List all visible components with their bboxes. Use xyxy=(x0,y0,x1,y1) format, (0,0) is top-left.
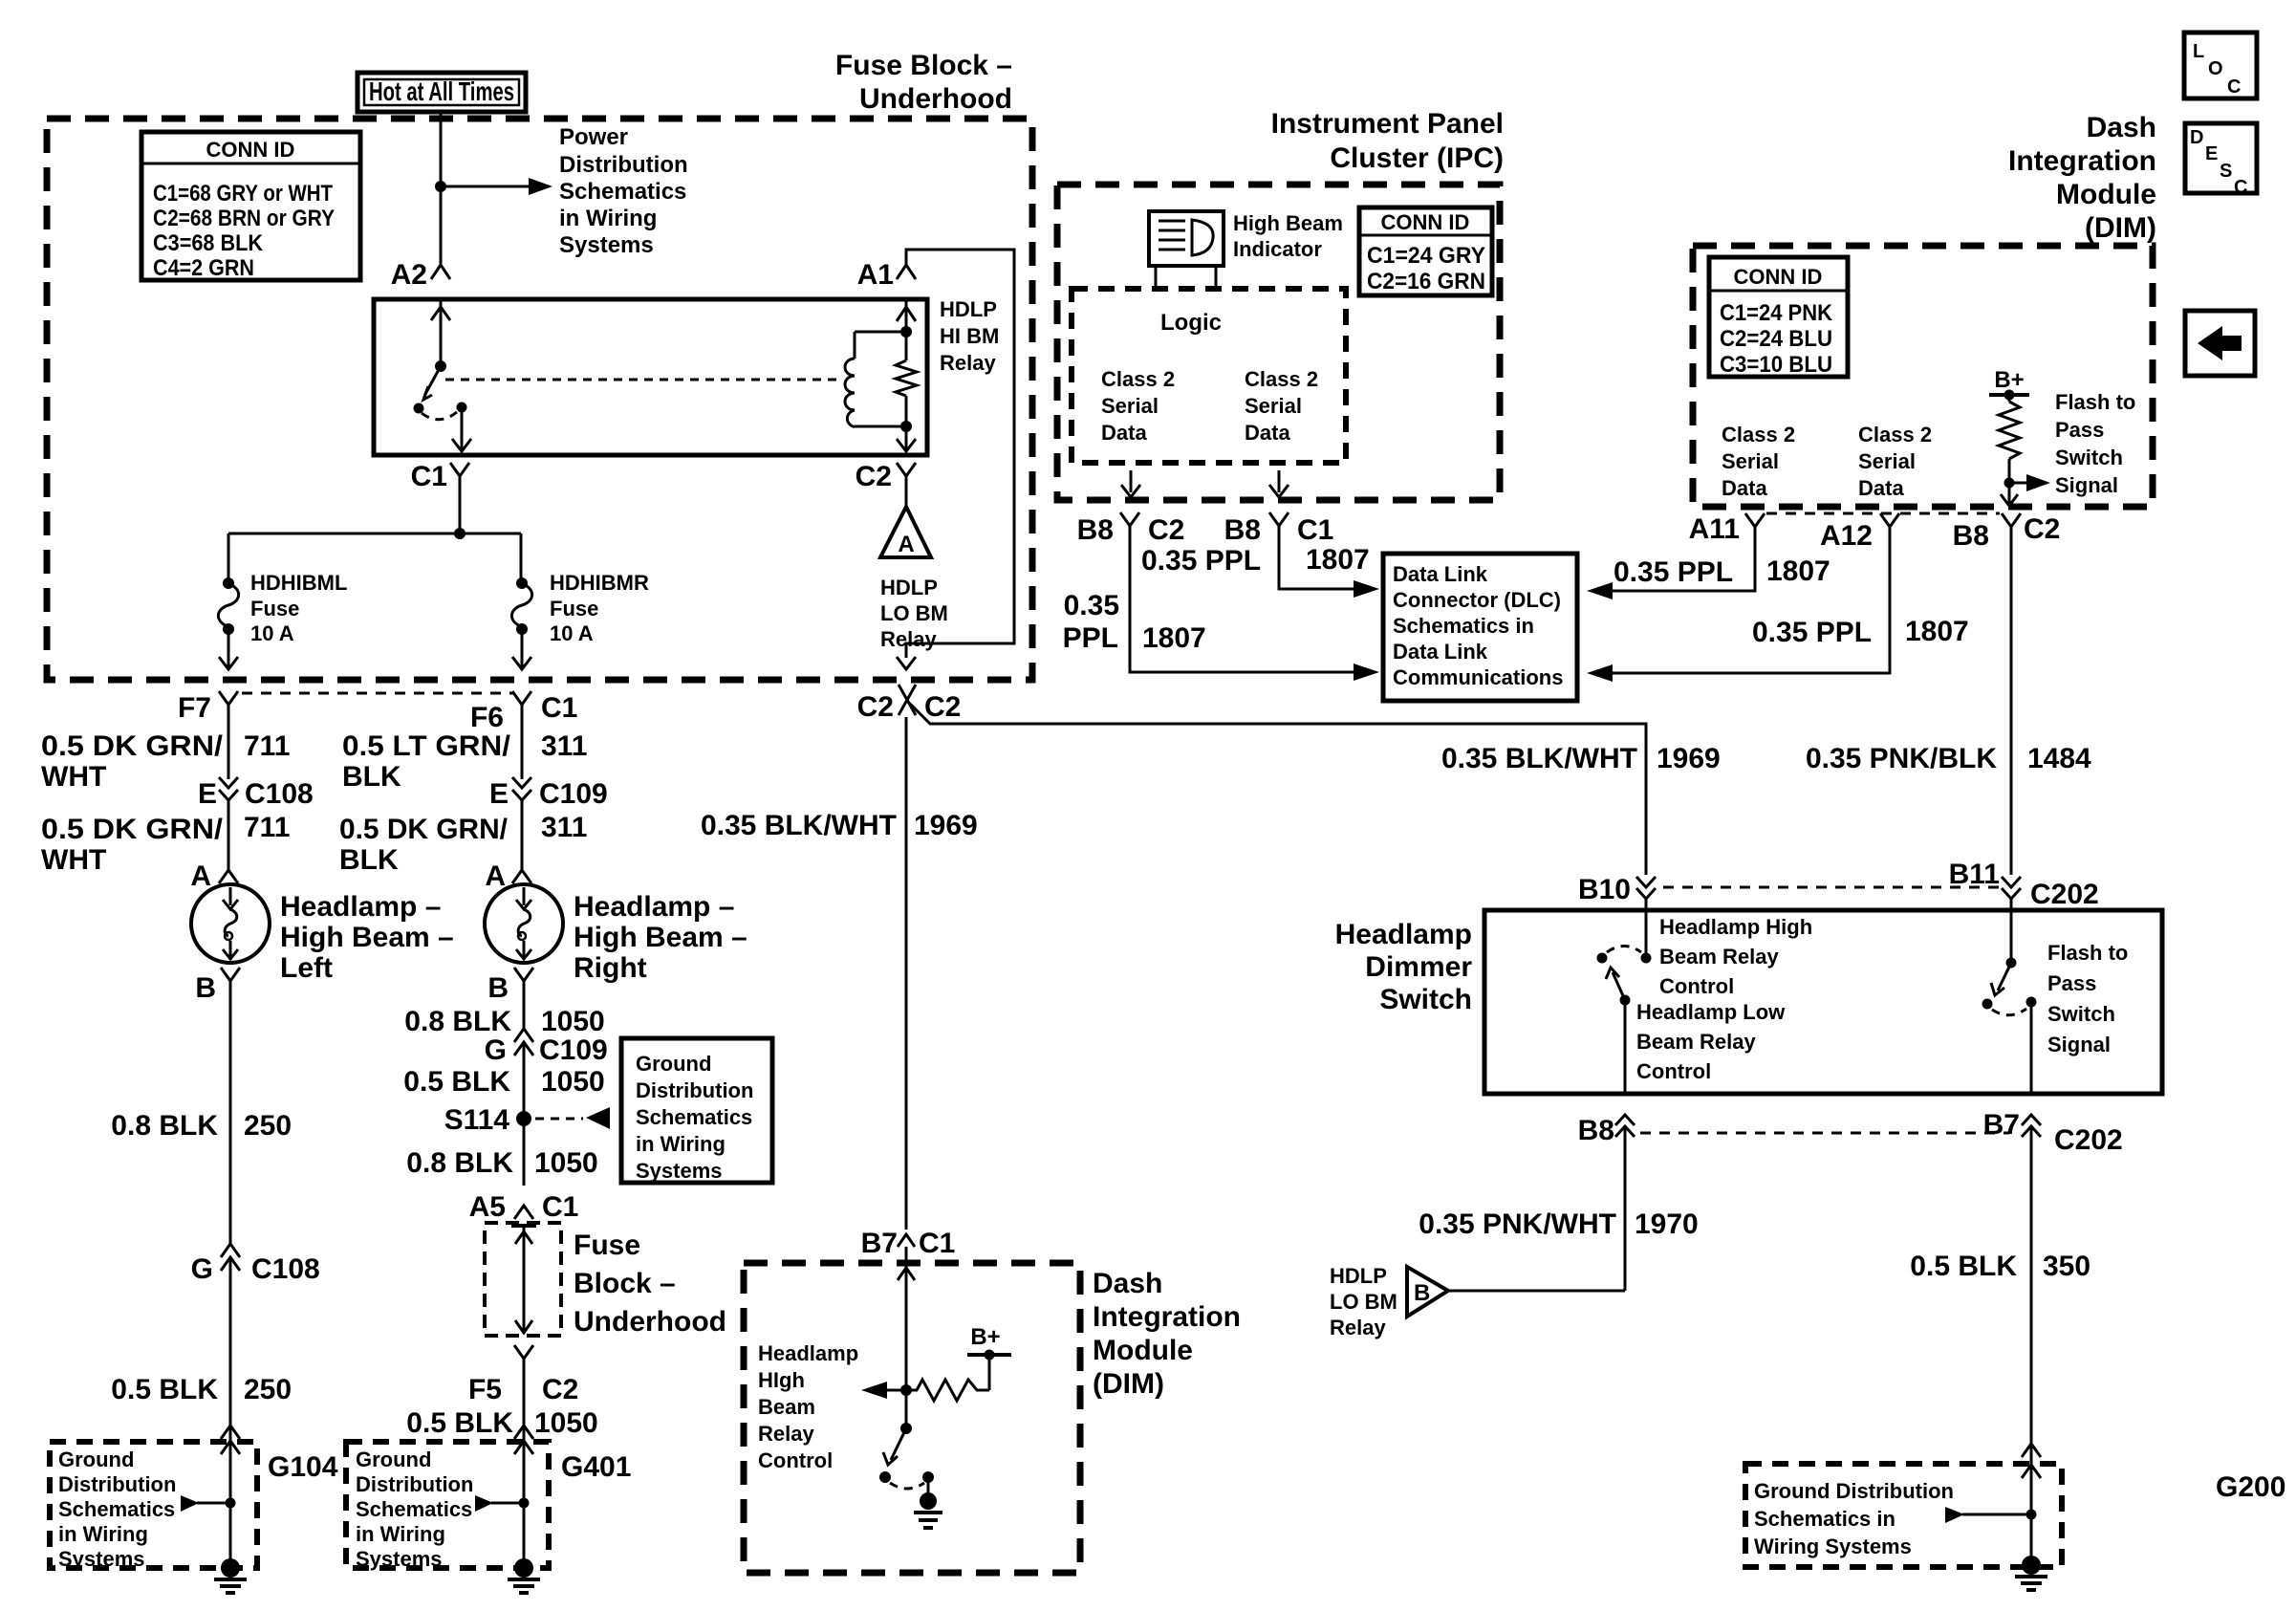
wire C109 to lamp xyxy=(521,800,524,870)
svg-text:Ground: Ground xyxy=(58,1448,134,1471)
svg-text:E: E xyxy=(2205,143,2218,164)
connector into G200 xyxy=(2022,1444,2041,1457)
CONN ID box (fuse block) xyxy=(141,132,360,280)
svg-text:Module: Module xyxy=(2056,179,2156,210)
svg-text:Signal: Signal xyxy=(2047,1033,2111,1056)
switch travel dashed arc xyxy=(1992,1009,2026,1015)
wire ground ref arrow G104 xyxy=(181,1495,199,1512)
svg-text:1050: 1050 xyxy=(534,1147,598,1179)
svg-text:HDLP: HDLP xyxy=(1330,1264,1387,1288)
svg-text:C1: C1 xyxy=(919,1228,955,1259)
svg-text:Dash: Dash xyxy=(1093,1268,1162,1299)
svg-text:0.5 DK GRN/: 0.5 DK GRN/ xyxy=(41,814,224,845)
connector row line under DIM xyxy=(1766,512,2000,515)
lamp E2 Headlamp High Beam Right xyxy=(485,884,563,963)
svg-text:711: 711 xyxy=(244,812,290,843)
wire relay control output arrow xyxy=(885,1389,906,1392)
ground G401 dashed box xyxy=(346,1442,549,1568)
wire switch output to C1 xyxy=(461,411,464,449)
high beam indicator icon xyxy=(1149,211,1224,266)
svg-text:C1: C1 xyxy=(1297,514,1333,546)
svg-text:1807: 1807 xyxy=(1905,616,1969,647)
svg-text:G200: G200 xyxy=(2216,1471,2285,1503)
svg-text:Flash to: Flash to xyxy=(2055,390,2135,414)
svg-text:CONN ID: CONN ID xyxy=(206,138,295,162)
flash to pass lower contact nodes xyxy=(1982,999,1993,1010)
wire lamp right to C109 ground side xyxy=(523,981,526,1029)
svg-text:1484: 1484 xyxy=(2027,743,2091,774)
svg-text:C1=68 GRY or WHT: C1=68 GRY or WHT xyxy=(153,181,333,207)
ground G200 dashed box xyxy=(1745,1464,2062,1567)
DLC reference box xyxy=(1383,554,1577,701)
svg-text:0.35 PPL: 0.35 PPL xyxy=(1141,545,1261,577)
headlamp dimmer switch box xyxy=(1484,910,2162,1094)
wire logic to B8 C2 xyxy=(1130,470,1133,492)
svg-text:Serial: Serial xyxy=(1101,394,1159,418)
svg-text:Signal: Signal xyxy=(2055,473,2118,497)
svg-text:Dash: Dash xyxy=(2087,112,2156,143)
svg-text:CONN ID: CONN ID xyxy=(1381,210,1470,234)
svg-text:BLK: BLK xyxy=(342,761,401,793)
wire B11 into switch xyxy=(2010,899,2013,963)
svg-text:A: A xyxy=(898,532,914,557)
wire junction to C2 pin xyxy=(2008,483,2011,504)
svg-text:Switch: Switch xyxy=(1379,984,1472,1015)
svg-text:Power: Power xyxy=(559,124,628,150)
svg-text:Fuse: Fuse xyxy=(574,1230,640,1261)
svg-text:HDHIBML: HDHIBML xyxy=(250,571,347,595)
wire lamp left to C108 ground side xyxy=(229,981,232,1244)
svg-text:Fuse: Fuse xyxy=(550,597,598,620)
svg-text:Hot at All Times: Hot at All Times xyxy=(369,76,514,106)
resistor R2 flash to pass pull-up xyxy=(2008,395,2011,402)
resistor R3 relay control pull-up xyxy=(906,1380,989,1401)
svg-text:LO BM: LO BM xyxy=(880,601,948,625)
svg-text:D: D xyxy=(2190,127,2203,148)
svg-text:A1: A1 xyxy=(857,259,894,291)
svg-text:Schematics: Schematics xyxy=(58,1497,175,1521)
svg-text:B+: B+ xyxy=(1994,367,2024,393)
flash to pass contact node xyxy=(2006,958,2017,969)
node coil bottom junction xyxy=(900,421,912,432)
svg-text:Headlamp: Headlamp xyxy=(1335,919,1472,950)
wire B8 C1 to DLC xyxy=(1279,526,1354,589)
switch left contact node xyxy=(414,403,424,414)
svg-text:C3=10 BLU: C3=10 BLU xyxy=(1720,352,1832,378)
connector F5 C2 xyxy=(514,1345,533,1359)
connector row line C202 (B8-B7) xyxy=(1640,1132,2009,1135)
svg-text:G: G xyxy=(485,1034,507,1066)
svg-text:in Wiring: in Wiring xyxy=(58,1522,148,1546)
svg-text:High Beam –: High Beam – xyxy=(280,922,454,953)
node coil top junction xyxy=(900,326,912,337)
wire F5 to G401 xyxy=(523,1359,526,1562)
svg-text:0.5 BLK: 0.5 BLK xyxy=(403,1066,510,1098)
svg-text:B8: B8 xyxy=(1578,1115,1614,1146)
svg-text:0.5 DK GRN/: 0.5 DK GRN/ xyxy=(41,730,224,762)
wire to fuse HDHIBML xyxy=(227,533,230,581)
connector row line C202 (B10-B11) xyxy=(1663,886,2002,889)
svg-text:B: B xyxy=(1414,1280,1430,1306)
ground symbol G200 xyxy=(2022,1556,2041,1575)
svg-text:Logic: Logic xyxy=(1160,310,1222,336)
svg-text:Headlamp –: Headlamp – xyxy=(574,891,734,923)
wire junction to switch pivot xyxy=(905,1390,908,1428)
svg-text:A12: A12 xyxy=(1820,520,1873,552)
svg-text:BLK: BLK xyxy=(339,844,399,876)
in-line connector triangle A (HDLP LO BM Relay) xyxy=(880,507,931,557)
svg-text:C2: C2 xyxy=(857,691,894,723)
svg-text:Pass: Pass xyxy=(2055,418,2104,442)
svg-text:C: C xyxy=(2227,76,2241,98)
svg-text:Headlamp: Headlamp xyxy=(758,1341,858,1365)
svg-text:C1=24 GRY: C1=24 GRY xyxy=(1367,243,1485,269)
svg-text:Connector (DLC): Connector (DLC) xyxy=(1393,588,1561,612)
svg-text:High Beam –: High Beam – xyxy=(574,922,747,953)
switch pivot node xyxy=(435,360,446,372)
wire B10 into switch xyxy=(1645,899,1648,958)
svg-text:B: B xyxy=(195,972,216,1004)
wire pivot to B8 xyxy=(1624,1000,1627,1094)
svg-text:C108: C108 xyxy=(251,1253,320,1285)
svg-text:Class 2: Class 2 xyxy=(1722,423,1795,446)
wire C2 to in-line connector A xyxy=(905,476,908,508)
svg-text:C1: C1 xyxy=(541,692,577,724)
svg-text:1969: 1969 xyxy=(914,810,978,841)
svg-text:0.35 PPL: 0.35 PPL xyxy=(1752,617,1872,648)
svg-text:Data: Data xyxy=(1245,421,1290,445)
svg-text:Fuse Block –: Fuse Block – xyxy=(835,50,1012,81)
svg-text:B11: B11 xyxy=(1949,859,2000,890)
svg-text:Systems: Systems xyxy=(58,1547,145,1571)
svg-text:F5: F5 xyxy=(468,1374,502,1405)
svg-text:A11: A11 xyxy=(1689,513,1740,545)
switch travel dashed arc xyxy=(422,412,457,420)
svg-text:Beam: Beam xyxy=(758,1395,815,1419)
svg-text:G: G xyxy=(191,1253,213,1285)
wire A2 into relay switch xyxy=(440,299,443,366)
svg-text:Wiring Systems: Wiring Systems xyxy=(1754,1535,1912,1558)
CONN ID box (IPC) xyxy=(1359,207,1492,295)
ground G104 dashed box xyxy=(50,1442,257,1568)
logic dashed box xyxy=(1072,289,1346,463)
DIM dashed box xyxy=(1693,246,2153,507)
svg-text:1807: 1807 xyxy=(1142,622,1206,654)
node relay control junction xyxy=(900,1384,912,1396)
svg-text:G401: G401 xyxy=(561,1451,631,1483)
svg-text:HDHIBMR: HDHIBMR xyxy=(550,571,649,595)
svg-text:B8: B8 xyxy=(1953,520,1989,552)
wire fuse feed rail xyxy=(228,533,521,535)
fuse block underhood dashed box xyxy=(47,119,1032,680)
svg-text:HDLP: HDLP xyxy=(880,576,938,599)
switch travel dashed arc xyxy=(1607,947,1641,953)
svg-text:Headlamp High: Headlamp High xyxy=(1659,915,1812,939)
wire branch to power distribution reference xyxy=(441,185,531,188)
svg-text:C: C xyxy=(2234,177,2247,198)
flash to pass arm xyxy=(1998,963,2011,991)
svg-text:C2: C2 xyxy=(856,461,892,492)
svg-text:B8: B8 xyxy=(1224,514,1261,546)
node junction on feed wire xyxy=(435,181,446,192)
wire C109 to S114 xyxy=(523,1042,526,1186)
DIM bottom dashed box xyxy=(744,1263,1080,1573)
svg-text:Control: Control xyxy=(1636,1059,1711,1083)
svg-text:Data: Data xyxy=(1858,476,1904,500)
svg-text:0.8 BLK: 0.8 BLK xyxy=(111,1110,218,1142)
wire C2 down to B7 C1 xyxy=(905,717,908,1230)
svg-text:Class 2: Class 2 xyxy=(1858,423,1932,446)
svg-text:B: B xyxy=(487,972,509,1004)
switch contact node left xyxy=(879,1471,891,1483)
wire DIM C2 down to B11 xyxy=(2010,527,2013,875)
svg-text:Switch: Switch xyxy=(2047,1002,2115,1026)
svg-text:C1: C1 xyxy=(411,461,447,492)
svg-text:B+: B+ xyxy=(970,1324,1000,1350)
svg-text:0.35 PNK/BLK: 0.35 PNK/BLK xyxy=(1806,743,1997,774)
fuse block underhood pass-through dashed box xyxy=(485,1223,561,1336)
ground symbol inside DIM xyxy=(927,1477,930,1493)
svg-text:C1: C1 xyxy=(542,1191,578,1223)
svg-text:Distribution: Distribution xyxy=(58,1472,176,1496)
svg-text:LO BM: LO BM xyxy=(1330,1290,1397,1314)
svg-text:311: 311 xyxy=(541,730,587,762)
wire B7 C1 into DIM xyxy=(905,1247,908,1390)
resistor R1 relay suppression xyxy=(905,332,908,360)
svg-text:HDLP: HDLP xyxy=(940,297,997,321)
svg-text:Data: Data xyxy=(1101,421,1147,445)
svg-text:Data: Data xyxy=(1722,476,1767,500)
svg-text:0.5 BLK: 0.5 BLK xyxy=(1910,1251,2017,1282)
wire through fuse block xyxy=(511,1224,536,1228)
svg-text:O: O xyxy=(2208,58,2223,79)
svg-text:Ground: Ground xyxy=(356,1448,431,1471)
svg-text:WHT: WHT xyxy=(41,761,106,793)
ground distribution note box (solid) xyxy=(621,1038,772,1183)
svg-text:Ground: Ground xyxy=(636,1052,711,1076)
svg-text:C108: C108 xyxy=(245,778,314,810)
svg-text:High Beam: High Beam xyxy=(1233,211,1343,235)
relay coil L1 xyxy=(855,331,906,334)
svg-text:Beam Relay: Beam Relay xyxy=(1659,945,1780,969)
svg-text:0.35 PNK/WHT: 0.35 PNK/WHT xyxy=(1419,1208,1616,1240)
svg-text:Fuse: Fuse xyxy=(250,597,299,620)
svg-text:Headlamp Low: Headlamp Low xyxy=(1636,1000,1786,1024)
svg-text:0.5 BLK: 0.5 BLK xyxy=(406,1407,513,1439)
svg-text:0.35 PPL: 0.35 PPL xyxy=(1614,556,1733,588)
svg-text:A2: A2 xyxy=(391,259,427,291)
relay mechanical linkage dashed line xyxy=(445,379,839,381)
connector into G104 xyxy=(221,1426,240,1454)
svg-text:Schematics in: Schematics in xyxy=(1754,1507,1895,1531)
svg-text:Distribution: Distribution xyxy=(636,1078,753,1102)
svg-text:Schematics in: Schematics in xyxy=(1393,614,1534,638)
svg-text:250: 250 xyxy=(244,1110,292,1142)
svg-text:Schematics: Schematics xyxy=(356,1497,472,1521)
svg-text:0.8 BLK: 0.8 BLK xyxy=(404,1006,511,1037)
CONN ID box (DIM) xyxy=(1709,257,1848,377)
svg-text:1807: 1807 xyxy=(1766,555,1830,587)
wire C108 to G104 xyxy=(229,1257,232,1562)
svg-text:Relay: Relay xyxy=(880,627,937,651)
svg-text:in Wiring: in Wiring xyxy=(559,206,657,231)
svg-text:1050: 1050 xyxy=(541,1066,605,1098)
svg-text:B7: B7 xyxy=(861,1228,898,1259)
svg-text:0.35: 0.35 xyxy=(1064,590,1119,621)
svg-text:F7: F7 xyxy=(178,692,211,724)
svg-text:in Wiring: in Wiring xyxy=(636,1132,726,1156)
wire F6 to C109 xyxy=(521,705,524,779)
svg-text:S114: S114 xyxy=(444,1104,510,1136)
wire contact to B7 xyxy=(2030,1002,2033,1094)
svg-text:0.35 BLK/WHT: 0.35 BLK/WHT xyxy=(1441,743,1637,774)
svg-text:E: E xyxy=(489,778,509,810)
svg-text:Cluster (IPC): Cluster (IPC) xyxy=(1330,142,1504,174)
svg-text:Ground Distribution: Ground Distribution xyxy=(1754,1479,1954,1503)
svg-text:C1=24 PNK: C1=24 PNK xyxy=(1720,300,1833,326)
svg-text:1807: 1807 xyxy=(1306,544,1370,576)
switch arm xyxy=(891,1428,906,1460)
wire to fuse HDHIBMR xyxy=(520,533,523,581)
svg-text:C109: C109 xyxy=(539,778,608,810)
svg-text:350: 350 xyxy=(2043,1251,2090,1282)
svg-text:Indicator: Indicator xyxy=(1233,237,1322,261)
svg-text:Pass: Pass xyxy=(2047,971,2096,995)
svg-text:B8: B8 xyxy=(1077,514,1114,546)
svg-text:250: 250 xyxy=(244,1374,292,1405)
svg-text:C2=68 BRN or GRY: C2=68 BRN or GRY xyxy=(153,206,335,231)
svg-text:G104: G104 xyxy=(268,1451,338,1483)
svg-text:Headlamp –: Headlamp – xyxy=(280,891,441,923)
DESC reference box xyxy=(2185,123,2257,193)
svg-text:Right: Right xyxy=(574,952,647,984)
svg-text:C2: C2 xyxy=(1148,514,1184,546)
svg-text:A5: A5 xyxy=(469,1191,506,1223)
svg-text:Systems: Systems xyxy=(356,1547,443,1571)
svg-text:Distribution: Distribution xyxy=(356,1472,473,1496)
svg-text:0.8 BLK: 0.8 BLK xyxy=(406,1147,513,1179)
svg-text:Distribution: Distribution xyxy=(559,152,688,178)
svg-text:10 A: 10 A xyxy=(250,621,294,645)
svg-text:Module: Module xyxy=(1093,1335,1193,1366)
svg-text:CONN ID: CONN ID xyxy=(1734,265,1823,289)
ground symbol G401 xyxy=(514,1558,533,1578)
wire branch C2 to B10 xyxy=(906,700,1646,875)
svg-text:in Wiring: in Wiring xyxy=(356,1522,445,1546)
svg-text:Relay: Relay xyxy=(758,1422,814,1446)
connector into G401 xyxy=(514,1426,533,1454)
switch movable arm xyxy=(424,366,441,396)
switch travel dashed arc xyxy=(890,1483,924,1489)
wire B7 down to G200 xyxy=(2030,1126,2033,1558)
svg-text:C2=16 GRN: C2=16 GRN xyxy=(1367,269,1485,294)
lamp E1 Headlamp High Beam Left xyxy=(191,884,270,963)
svg-text:WHT: WHT xyxy=(41,844,106,876)
svg-text:1050: 1050 xyxy=(541,1006,605,1037)
svg-text:C2=24 BLU: C2=24 BLU xyxy=(1720,326,1832,352)
svg-text:0.5 DK GRN/: 0.5 DK GRN/ xyxy=(339,814,509,845)
wire B8 down to HDLP LO BM relay ref xyxy=(1624,1126,1627,1291)
svg-text:Schematics: Schematics xyxy=(636,1105,752,1129)
in-line connector triangle B (HDLP LO BM Relay) xyxy=(1407,1267,1448,1317)
svg-text:Dimmer: Dimmer xyxy=(1365,951,1472,983)
svg-text:0.5 LT GRN/: 0.5 LT GRN/ xyxy=(342,730,511,762)
arrow reference box xyxy=(2185,311,2255,376)
IPC dashed box xyxy=(1057,185,1500,500)
svg-text:A: A xyxy=(485,860,506,892)
svg-text:Underhood: Underhood xyxy=(859,83,1012,115)
svg-text:Instrument Panel: Instrument Panel xyxy=(1271,108,1504,140)
wire flash to pass signal arrow xyxy=(2009,482,2026,485)
wire F7 to C108 xyxy=(227,705,230,779)
svg-text:Communications: Communications xyxy=(1393,665,1563,689)
svg-text:B7: B7 xyxy=(1983,1109,2020,1141)
wire A11 to DLC xyxy=(1587,582,1613,599)
svg-text:Flash to: Flash to xyxy=(2047,941,2128,965)
svg-text:C2: C2 xyxy=(2024,513,2060,545)
svg-text:C2: C2 xyxy=(542,1374,578,1405)
svg-text:Block –: Block – xyxy=(574,1268,676,1299)
svg-text:PPL: PPL xyxy=(1063,622,1118,654)
svg-text:C109: C109 xyxy=(539,1034,608,1066)
svg-text:(DIM): (DIM) xyxy=(1093,1368,1164,1400)
svg-text:C202: C202 xyxy=(2030,879,2099,910)
wire logic to B8 C1 xyxy=(1278,470,1281,492)
svg-text:1969: 1969 xyxy=(1657,743,1721,774)
relay U1 HDLP HI BM Relay box xyxy=(374,299,927,455)
svg-text:0.5 BLK: 0.5 BLK xyxy=(111,1374,218,1405)
svg-text:Beam Relay: Beam Relay xyxy=(1636,1030,1757,1054)
svg-text:(DIM): (DIM) xyxy=(2085,212,2156,244)
svg-text:Class 2: Class 2 xyxy=(1101,367,1175,391)
svg-text:Relay: Relay xyxy=(940,351,996,375)
svg-text:Data Link: Data Link xyxy=(1393,640,1488,664)
svg-text:L: L xyxy=(2193,41,2204,62)
svg-text:Integration: Integration xyxy=(1093,1301,1241,1333)
svg-text:Schematics: Schematics xyxy=(559,179,686,205)
svg-text:Systems: Systems xyxy=(636,1159,723,1183)
switch high beam arm xyxy=(1613,972,1625,1000)
svg-text:A: A xyxy=(190,860,211,892)
wire coil output to C2 xyxy=(905,426,908,449)
wire from Hot at All Times down to A2 xyxy=(440,112,443,264)
svg-text:B10: B10 xyxy=(1578,874,1631,905)
switch high beam contact nodes xyxy=(1597,953,1608,964)
svg-text:Serial: Serial xyxy=(1858,449,1916,473)
svg-text:C202: C202 xyxy=(2054,1124,2123,1156)
svg-text:1970: 1970 xyxy=(1635,1208,1699,1240)
switch contact node right xyxy=(922,1471,934,1483)
svg-text:S: S xyxy=(2220,161,2232,182)
connector row line under fuse block xyxy=(242,692,513,695)
wire C1 down to fuse feed xyxy=(459,476,462,533)
svg-text:10 A: 10 A xyxy=(550,621,594,645)
svg-text:E: E xyxy=(198,778,217,810)
wire A1 into relay coil xyxy=(905,299,908,332)
node fuse feed junction xyxy=(454,528,466,539)
svg-text:311: 311 xyxy=(541,812,587,843)
svg-text:C2: C2 xyxy=(924,691,961,723)
switch right contact node xyxy=(457,403,467,413)
svg-text:C3=68 BLK: C3=68 BLK xyxy=(153,230,264,256)
ground symbol G104 xyxy=(221,1558,240,1578)
svg-text:1050: 1050 xyxy=(534,1407,598,1439)
svg-text:Control: Control xyxy=(758,1448,833,1472)
wire A12 to DLC xyxy=(1587,664,1613,682)
svg-text:Underhood: Underhood xyxy=(574,1306,726,1338)
svg-text:711: 711 xyxy=(244,730,290,762)
svg-text:Serial: Serial xyxy=(1245,394,1302,418)
